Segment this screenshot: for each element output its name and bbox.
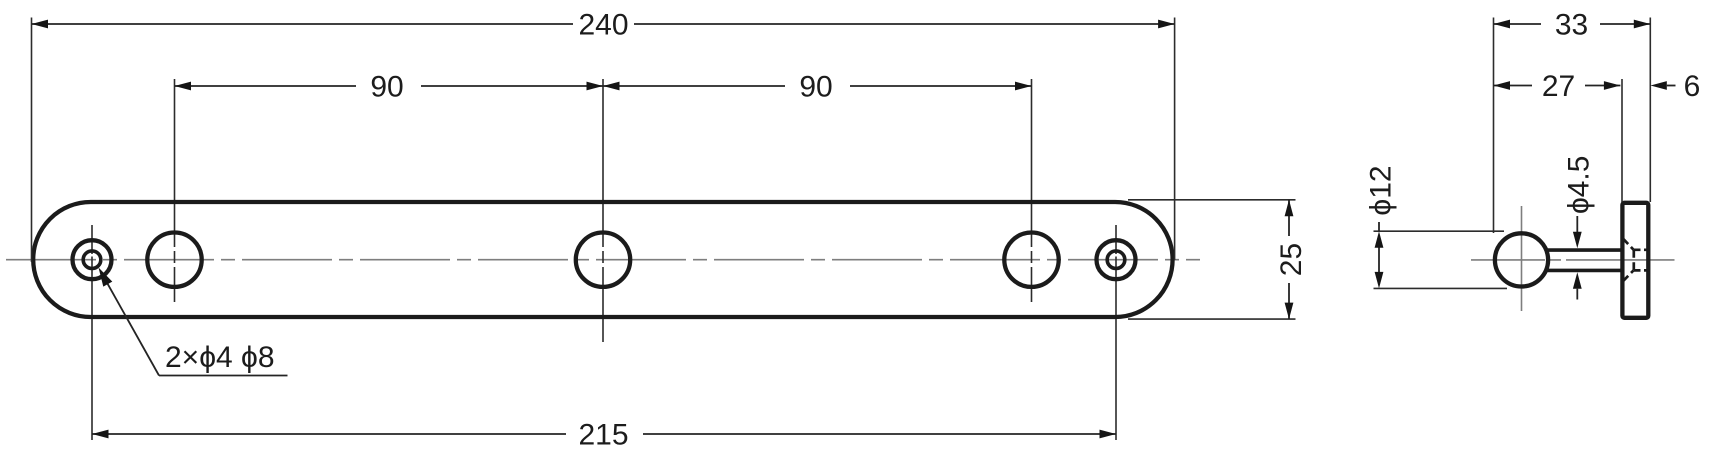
stem top line [1546, 248, 1622, 252]
big hole H2 [576, 233, 630, 287]
dimension 240: right arrow [1158, 20, 1175, 29]
dimension 90 left: left arrow [175, 82, 192, 91]
countersunk hole right, inner hole [1107, 251, 1125, 269]
dimension 27: line left part [1494, 85, 1533, 87]
stem bottom line [1546, 269, 1622, 273]
dimension 27: left arrow [1494, 81, 1511, 90]
dimension 25: line top part [1288, 200, 1290, 236]
hidden countersink lower diagonal [1623, 270, 1634, 281]
dimension 215: left arrow [92, 430, 109, 439]
dimension phi12: top arrow [1375, 231, 1384, 248]
extension line through right countersunk hole (215 dim) [1115, 225, 1117, 440]
dimension phi4.5: line below [1576, 289, 1578, 300]
dimension 90 right: line right part [850, 85, 1032, 87]
dimension phi12: bottom extension line [1374, 287, 1508, 289]
dimension 240: line right part [634, 23, 1175, 25]
dimension 6: tail line [1667, 85, 1676, 87]
dimension 25: line bottom part [1288, 283, 1290, 319]
dimension 240: left arrow [32, 20, 49, 29]
dimension 33: line right part [1600, 23, 1650, 25]
dimension 33: line left part [1494, 23, 1542, 25]
dimension 215: line left part [92, 433, 566, 435]
vertical center line of ball [1521, 206, 1523, 311]
plate outline (stadium) [33, 202, 1172, 317]
countersunk hole right, outer ring [1097, 240, 1136, 279]
dimension phi12: top extension line [1374, 230, 1505, 232]
dimension 6: arrow outside right extension [1650, 81, 1667, 90]
dimension 33: right arrow [1634, 20, 1651, 29]
dimension 25: bottom arrow [1285, 303, 1294, 320]
dimension 240: line left part [32, 23, 574, 25]
dimension phi12: bottom arrow [1375, 272, 1384, 289]
dimension 215: line right part [643, 433, 1116, 435]
ball knob [1495, 233, 1548, 286]
svg-text:6: 6 [1684, 70, 1701, 103]
leader arrowhead [99, 268, 113, 287]
hidden hole bottom line [1634, 269, 1650, 272]
hidden hole vertical line [1632, 250, 1635, 271]
dimension 25: top extension line [1128, 199, 1296, 201]
svg-text:90: 90 [370, 71, 403, 104]
dimension 240: left extension line [31, 18, 33, 263]
dimension 90 right: line left part [603, 85, 785, 87]
dimension phi4.5: top arrow (outside, pointing down) [1573, 232, 1582, 249]
dimension 27: line right part [1585, 85, 1620, 87]
dimension 90 left: right arrow [587, 82, 604, 91]
dimension 240: right extension line [1174, 18, 1176, 261]
extension line through middle big hole (90 dims) [602, 79, 604, 342]
extension line through left big hole (90 dim) [174, 79, 176, 302]
mounting plate side view [1622, 203, 1648, 318]
dimension 90 left: line left part [175, 85, 357, 87]
dimension 25: top arrow [1285, 200, 1294, 217]
dimension phi12: line stub above [1378, 222, 1380, 231]
svg-text:27: 27 [1542, 70, 1575, 103]
big hole H1 [147, 233, 201, 287]
dimension 33/6: right extension line (plate back) [1649, 18, 1651, 203]
leader line for countersunk holes [101, 272, 159, 376]
dimension 33: left arrow [1494, 20, 1511, 29]
dimension phi12: line between arrows [1378, 247, 1380, 273]
dimension 90 left: line right part [421, 85, 603, 87]
dimension 215: right arrow [1100, 430, 1117, 439]
extension line through left countersunk hole (215 dim) [91, 225, 93, 440]
dimension 27: right arrow [1604, 81, 1621, 90]
svg-text:ϕ4.5: ϕ4.5 [1563, 156, 1596, 215]
svg-text:2×ϕ4 ϕ8: 2×ϕ4 ϕ8 [165, 341, 275, 374]
horizontal center line of plate [6, 259, 1200, 261]
hidden hole top line [1634, 248, 1650, 251]
svg-text:240: 240 [578, 9, 628, 42]
dimension 27/6: middle extension line (plate front) [1621, 79, 1623, 202]
svg-text:90: 90 [799, 71, 832, 104]
dimension 33/27: left extension line (ball front) [1493, 18, 1495, 234]
horizontal center line of hook [1471, 259, 1675, 261]
svg-text:25: 25 [1275, 243, 1308, 276]
dimension phi4.5: bottom arrow (outside, pointing up) [1573, 272, 1582, 289]
svg-text:33: 33 [1555, 9, 1588, 42]
countersunk hole left, inner hole [83, 251, 101, 269]
dimension phi4.5: line above [1576, 216, 1578, 232]
svg-text:ϕ12: ϕ12 [1365, 165, 1398, 215]
dimension 90 right: left arrow [603, 82, 620, 91]
extension line through right big hole (90 dim) [1031, 79, 1033, 302]
hidden countersink upper diagonal [1623, 239, 1634, 250]
leader underline [159, 375, 288, 377]
dimension 90 right: right arrow [1015, 82, 1032, 91]
big hole H3 [1004, 233, 1058, 287]
countersunk hole left, outer ring [73, 240, 112, 279]
dimension 25: bottom extension line [1128, 318, 1296, 320]
svg-text:215: 215 [578, 419, 628, 452]
